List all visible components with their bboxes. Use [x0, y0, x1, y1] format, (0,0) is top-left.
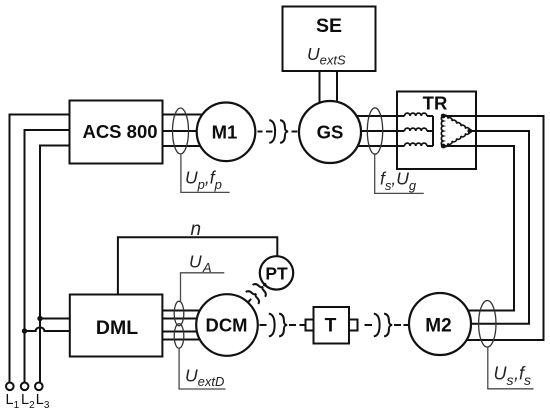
supply terminal L3	[35, 383, 43, 391]
top edge	[443, 115, 470, 131]
svg-text:ACS 800: ACS 800	[82, 121, 157, 142]
wire GS to TR phase 3	[340, 145, 405, 147]
box SE	[283, 7, 376, 72]
wire GS to TR phase 2	[340, 130, 405, 132]
junction dot L2/DML	[22, 328, 27, 333]
svg-text:SE: SE	[316, 15, 342, 37]
wire L3 branch to DML	[40, 318, 70, 320]
wire TR input stubs inside box	[390, 116, 405, 146]
machine DCM	[196, 294, 258, 356]
coupling T-M2	[365, 314, 409, 337]
junction dot L3/DML	[37, 316, 42, 321]
wire DML to DCM armature line 1	[162, 310, 202, 312]
leader line fs,Ug	[375, 155, 424, 194]
svg-text:T: T	[325, 316, 337, 337]
box ACS 800	[70, 101, 163, 164]
coupling DCM-T	[260, 314, 305, 337]
supply terminal L1	[6, 383, 14, 391]
measuring point ellipse Us,fs	[479, 301, 496, 348]
measuring point ellipse UA	[174, 301, 184, 326]
bottom edge	[443, 131, 470, 147]
generator GS	[299, 101, 361, 163]
wire DML to DCM armature line 2	[162, 318, 198, 320]
TR star point bus	[427, 116, 433, 146]
motor M2	[409, 293, 471, 355]
TR primary coil row 3	[405, 143, 427, 146]
wire TR output top to M2 (outer)	[443, 116, 543, 340]
wire L2 vertical + into ACS800	[25, 130, 70, 383]
svg-text:DCM: DCM	[206, 314, 248, 335]
wire TR output stubs inside box	[443, 116, 476, 146]
wire ACS800 to M1 phase 3	[163, 145, 207, 147]
wire L1 vertical + into ACS800	[10, 115, 70, 383]
TR primary coil row 1	[405, 113, 434, 146]
wire DML to DCM field line 1	[162, 331, 198, 333]
wire TR output bottom to M2 (inner)	[443, 146, 514, 311]
TR primary coil row 2	[405, 128, 427, 131]
svg-text:M1: M1	[212, 121, 238, 142]
box T with shaft stubs	[306, 307, 358, 344]
supply terminal L2	[21, 383, 29, 391]
leader line UextD	[179, 348, 225, 389]
leader line Up,fp	[181, 155, 230, 193]
tachometer PT	[260, 256, 293, 289]
wire ACS800 to M1 phase 2	[163, 130, 201, 132]
svg-text:TR: TR	[423, 92, 448, 113]
wire TR output middle to M2	[458, 131, 529, 324]
wire L2 branch to DML with hop over L3	[25, 327, 70, 331]
wire ACS800 to M1 phase 1	[163, 114, 207, 116]
measuring point ellipse Up,fp	[173, 108, 189, 154]
measuring point ellipse fs,Ug	[367, 108, 382, 154]
wire GS to TR phase 1	[340, 115, 405, 117]
leader line UA	[181, 273, 225, 302]
svg-text:M2: M2	[425, 315, 451, 336]
left edge	[441, 116, 443, 146]
wire SE to GS stub 2	[336, 71, 338, 106]
TR delta winding triangle (scalloped)	[441, 115, 469, 147]
wire SE to GS stub 1	[319, 71, 321, 106]
wire L3 vertical + into ACS800	[40, 146, 70, 383]
box DML	[70, 295, 163, 357]
coupling DCM-PT (diagonal)	[242, 277, 273, 308]
svg-text:PT: PT	[265, 263, 288, 283]
svg-text:n: n	[191, 219, 202, 240]
wire speed signal n from DML to PT	[118, 237, 277, 294]
leader line Us,fs	[488, 347, 534, 389]
box TR	[397, 92, 476, 170]
wire DML to DCM field line 2	[162, 339, 202, 341]
svg-text:GS: GS	[317, 122, 344, 143]
measuring point ellipse UextD	[174, 324, 184, 349]
svg-text:DML: DML	[96, 317, 138, 339]
motor M1	[197, 103, 256, 162]
TR triangle corner dots	[441, 114, 472, 149]
coupling M1-GS	[258, 120, 298, 143]
wires DML redraw left feeds	[63, 319, 70, 332]
